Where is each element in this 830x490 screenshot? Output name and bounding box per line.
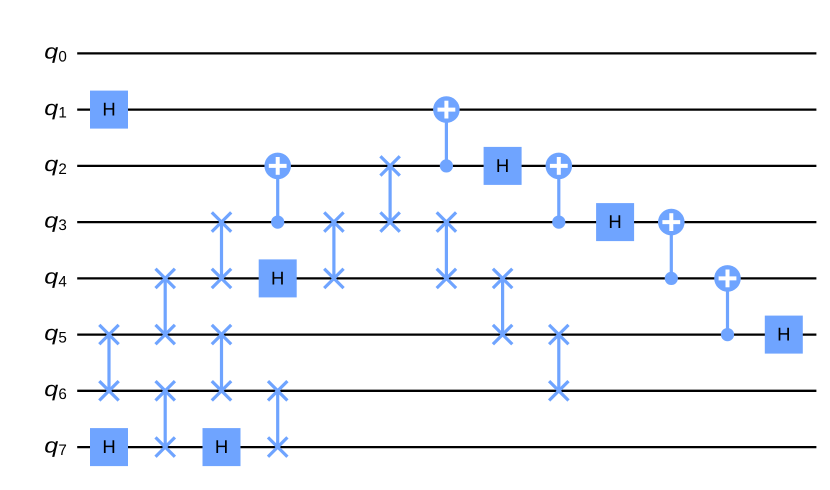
H gate on q5 (column 13) [765,316,803,354]
CNOT target on q4 (column 12) [714,265,741,292]
svg-text:q: q [44,41,58,64]
swap cross on q6 (column 4) [268,381,287,400]
CNOT connector q3->q2 (column 4) [276,166,279,222]
label q0 [44,41,67,66]
wire q0 [77,52,816,54]
swap cross on q3 (column 5) [324,212,343,231]
swap cross on q7 (column 2) [156,437,175,456]
svg-text:q: q [44,209,58,232]
svg-text:3: 3 [58,217,66,234]
swap cross on q4 (column 3) [212,269,231,288]
wire q3 [77,221,816,223]
H gate on q2 (column 8) [484,147,522,185]
swap cross on q6 (column 3) [212,381,231,400]
H gate on q4 (column 4) [259,259,297,297]
CNOT control dot on q3 (column 9) [552,216,565,229]
swap cross on q5 (column 9) [549,325,568,344]
swap gate q2-q3 connector (column 6) [389,166,392,222]
swap cross on q4 (column 7) [437,269,456,288]
swap cross on q6 (column 2) [156,381,175,400]
swap cross on q4 (column 2) [156,269,175,288]
swap cross on q3 (column 3) [212,212,231,231]
wire q6 [77,390,816,392]
svg-text:q: q [44,378,58,401]
svg-text:q: q [44,97,58,120]
H gate on q1 (column 1) [90,91,128,129]
swap cross on q3 (column 7) [437,212,456,231]
swap gate q4-q5 connector (column 8) [501,278,504,334]
swap gate q5-q6 connector (column 3) [220,335,223,391]
wire q7 [77,446,816,448]
svg-text:q: q [44,434,58,457]
CNOT control dot on q5 (column 12) [721,328,734,341]
label q5 [44,322,67,347]
svg-text:2: 2 [58,161,66,178]
swap cross on q2 (column 6) [380,156,399,175]
svg-text:5: 5 [58,330,66,347]
swap gate q4-q5 connector (column 2) [164,278,167,334]
svg-text:0: 0 [58,48,66,65]
swap cross on q4 (column 8) [493,269,512,288]
swap cross on q6 (column 9) [549,381,568,400]
svg-text:H: H [102,99,115,120]
swap cross on q6 (column 1) [99,381,118,400]
wire q4 [77,277,816,279]
label q6 [44,378,67,403]
CNOT connector q2->q1 (column 7) [445,110,448,166]
svg-text:q: q [44,266,58,289]
H gate on q7 (column 1) [90,428,128,466]
swap gate q3-q4 connector (column 5) [332,222,335,278]
H gate on q7 (column 3) [203,428,241,466]
CNOT target on q1 (column 7) [433,96,460,123]
label q1 [44,97,67,122]
svg-text:H: H [608,211,621,232]
label q4 [44,266,67,291]
swap cross on q5 (column 8) [493,325,512,344]
svg-text:H: H [215,436,228,457]
CNOT control dot on q4 (column 11) [665,272,678,285]
swap cross on q5 (column 2) [156,325,175,344]
svg-text:q: q [44,153,58,176]
svg-text:H: H [102,436,115,457]
H gate on q3 (column 10) [596,203,634,241]
swap gate q5-q6 connector (column 1) [107,335,110,391]
wire q2 [77,165,816,167]
CNOT connector q3->q2 (column 9) [557,166,560,222]
wire q1 [77,108,816,110]
swap gate q6-q7 connector (column 2) [164,391,167,447]
CNOT connector q4->q3 (column 11) [670,222,673,278]
svg-text:H: H [271,268,284,289]
CNOT control dot on q3 (column 4) [271,216,284,229]
svg-text:H: H [496,155,509,176]
swap gate q3-q4 connector (column 3) [220,222,223,278]
swap cross on q7 (column 4) [268,437,287,456]
swap gate q6-q7 connector (column 4) [276,391,279,447]
swap gate q3-q4 connector (column 7) [445,222,448,278]
CNOT connector q5->q4 (column 12) [726,278,729,334]
svg-text:4: 4 [58,273,66,290]
swap cross on q4 (column 5) [324,269,343,288]
CNOT target on q2 (column 4) [264,153,291,180]
CNOT target on q2 (column 9) [546,153,573,180]
wire q5 [77,333,816,335]
svg-text:q: q [44,322,58,345]
label q2 [44,153,67,178]
svg-text:7: 7 [58,442,66,459]
svg-text:6: 6 [58,386,66,403]
label q7 [44,434,67,459]
swap cross on q3 (column 6) [380,212,399,231]
svg-text:H: H [777,324,790,345]
swap cross on q5 (column 3) [212,325,231,344]
swap cross on q5 (column 1) [99,325,118,344]
svg-text:1: 1 [58,105,66,122]
CNOT target on q3 (column 11) [658,209,685,236]
swap gate q5-q6 connector (column 9) [557,335,560,391]
CNOT control dot on q2 (column 7) [440,159,453,172]
label q3 [44,209,67,234]
